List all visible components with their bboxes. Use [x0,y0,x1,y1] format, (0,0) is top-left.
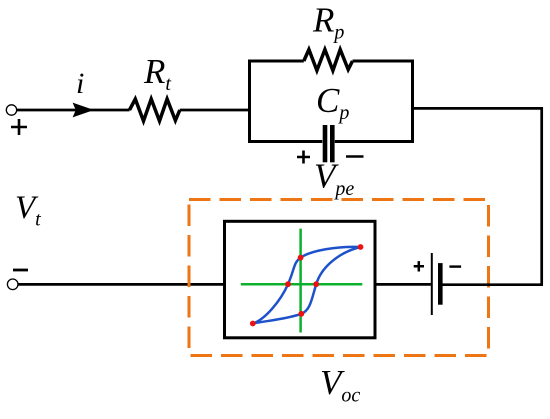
blue hysteresis curve upper branch [253,247,361,324]
wire: box to battery [375,283,431,286]
resistor Rt [130,99,180,121]
wire: terminal to resistor Rt [17,109,130,112]
minus sign at capacitor [346,155,364,158]
green vertical axis [299,229,302,333]
wire: battery to right vertical [443,283,544,286]
plus sign at battery [414,261,424,271]
wire: resistor Rt to RC block [180,109,250,112]
dashed hysteresis region box [189,200,489,356]
terminal T2 (bottom-left open circle) [7,279,18,290]
wire: bottom-left horizontal [18,283,226,286]
capacitor Cp plates [323,125,328,162]
plus sign at top-left terminal [11,119,27,135]
red dot: right crossing of horizontal axis [313,281,319,287]
blue hysteresis curve lower branch [253,247,361,324]
svg-text:i: i [76,67,84,100]
green horizontal axis [241,283,362,286]
wire: top-right horizontal [413,107,544,110]
red dot: lower-left end [250,321,256,327]
parallel RC block outline [250,61,413,142]
current arrow [73,103,94,118]
minus sign at bottom-left terminal [13,269,28,272]
battery positive plate (long) [431,253,433,315]
minus sign at battery [449,265,461,267]
terminal T1 (top-left open circle) [6,105,16,115]
wire: right vertical [540,107,543,285]
resistor Rp [304,50,353,71]
plus sign at capacitor [297,151,310,164]
red dot: upper-right end [358,244,364,250]
red dot: lower crossing of vertical axis [298,311,304,317]
red dot: left crossing of horizontal axis [285,281,291,287]
battery negative plate (short thick) [438,263,443,305]
red dot: upper crossing of vertical axis [298,255,304,261]
hysteresis block box [225,221,376,337]
